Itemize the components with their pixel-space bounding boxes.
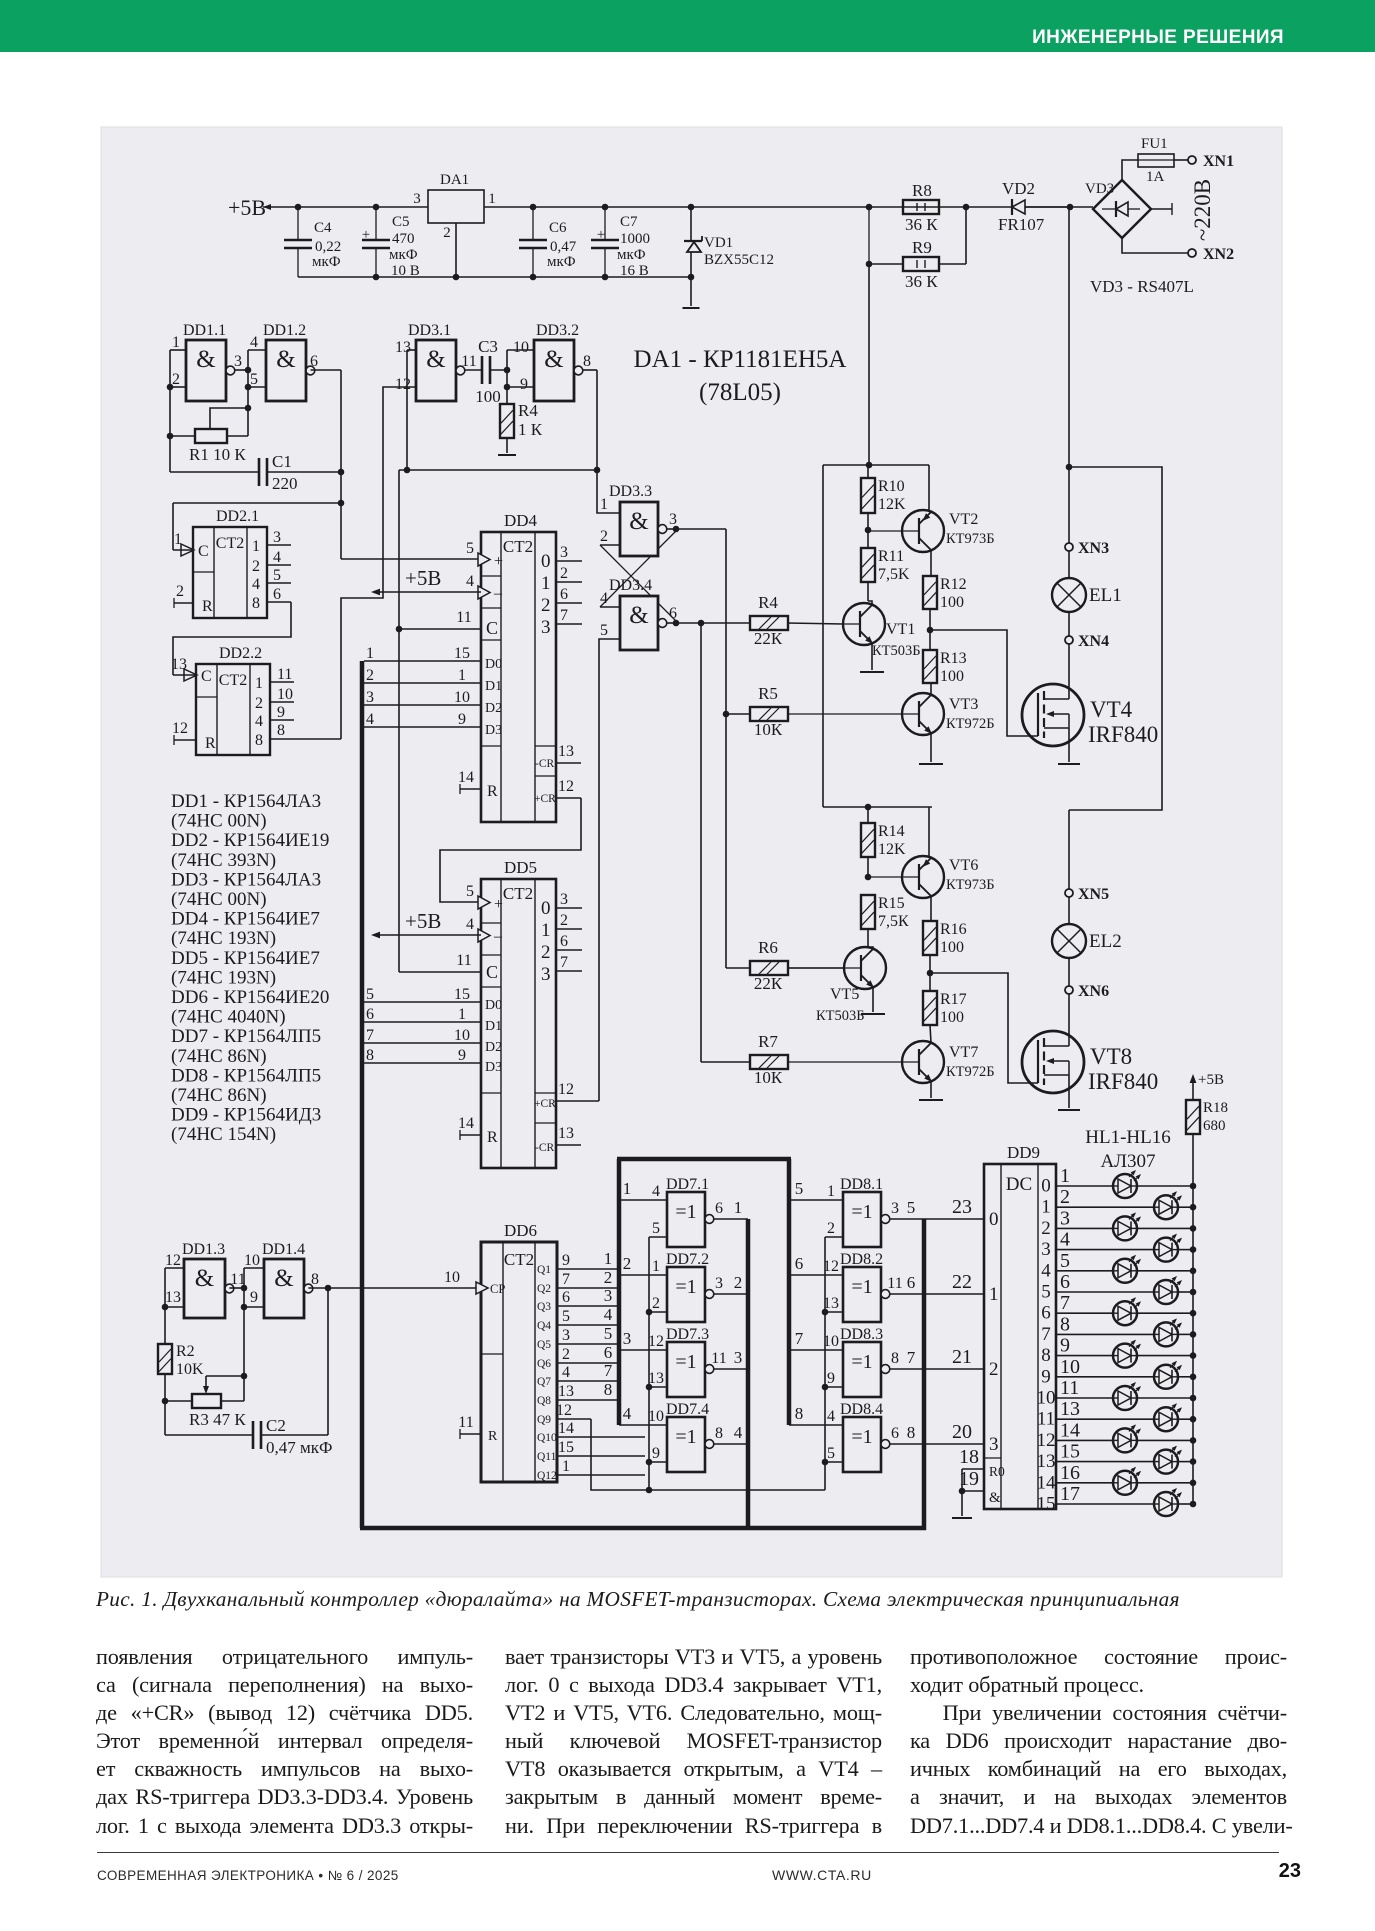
svg-text:14: 14 <box>1037 1472 1057 1493</box>
svg-text:36 К: 36 К <box>905 272 938 291</box>
resistor R9 36K <box>903 257 939 271</box>
svg-text:4: 4 <box>1041 1260 1051 1281</box>
svg-text:2: 2 <box>541 595 551 616</box>
svg-text:XN2: XN2 <box>1203 246 1234 263</box>
wire DD3.1 pin13 <box>407 349 416 351</box>
svg-text:EL2: EL2 <box>1089 931 1122 952</box>
svg-text:0,47 мкФ: 0,47 мкФ <box>266 1438 332 1457</box>
svg-text:DD4: DD4 <box>504 511 538 530</box>
bus wire bottom horizontal <box>360 1526 926 1531</box>
svg-text:2: 2 <box>176 583 184 600</box>
svg-text:3: 3 <box>1060 1207 1070 1229</box>
svg-text:1: 1 <box>1060 1165 1070 1187</box>
svg-text:C: C <box>486 618 498 638</box>
svg-text:7: 7 <box>795 1329 804 1348</box>
svg-text:15: 15 <box>454 986 470 1003</box>
svg-text:10: 10 <box>1060 1356 1080 1378</box>
svg-text:1: 1 <box>541 920 551 941</box>
svg-text:8: 8 <box>1041 1345 1051 1366</box>
svg-text:3: 3 <box>715 1275 723 1292</box>
svg-text:5: 5 <box>366 986 374 1003</box>
DD4 pin14 R input <box>459 784 461 794</box>
svg-text:КТ972Б: КТ972Б <box>946 716 995 732</box>
svg-text:13: 13 <box>395 339 411 356</box>
svg-text:C3: C3 <box>478 337 498 356</box>
svg-text:R: R <box>202 598 213 615</box>
wire +5V rail <box>263 206 428 208</box>
svg-text:7: 7 <box>1060 1292 1070 1314</box>
svg-text:XN1: XN1 <box>1203 153 1234 170</box>
gate DD1.1 <box>186 340 226 401</box>
svg-text:5: 5 <box>1060 1250 1070 1272</box>
terminal XN6 <box>1068 958 1070 986</box>
svg-text:6: 6 <box>1041 1303 1051 1324</box>
svg-text:VT2: VT2 <box>949 511 978 528</box>
svg-text:C: C <box>486 962 498 982</box>
svg-text:4: 4 <box>466 573 474 590</box>
svg-text:мкФ: мкФ <box>389 247 418 263</box>
DD5 pin4 -1 input with +5V <box>374 934 481 936</box>
svg-text:12: 12 <box>556 1402 572 1419</box>
svg-text:=1: =1 <box>851 1201 872 1223</box>
svg-text:2: 2 <box>562 1346 570 1363</box>
svg-text:36 К: 36 К <box>905 215 938 234</box>
svg-text:3: 3 <box>734 1348 743 1367</box>
svg-text:DD3.1: DD3.1 <box>408 322 451 339</box>
ground below DD9 strobe <box>952 1517 972 1519</box>
svg-text:4: 4 <box>273 549 281 566</box>
svg-text:10: 10 <box>1037 1388 1056 1409</box>
svg-text:8: 8 <box>277 722 285 739</box>
svg-text:1: 1 <box>827 1183 835 1200</box>
svg-text:+: + <box>362 227 370 243</box>
svg-text:3: 3 <box>604 1286 613 1305</box>
wire DD1.4 out to DD6 CP <box>308 1287 481 1289</box>
svg-text:5: 5 <box>466 883 474 900</box>
ground below VT3 <box>919 763 943 765</box>
DD5 pin11 C input <box>399 971 481 973</box>
svg-text:DD8.1: DD8.1 <box>840 1176 883 1193</box>
svg-text:DD1.4: DD1.4 <box>262 1241 305 1258</box>
bus wire main vertical left <box>360 661 365 1528</box>
svg-text:6: 6 <box>366 1006 374 1023</box>
wire DD3.4 out to R4. R7 <box>676 622 750 624</box>
svg-text:11: 11 <box>277 666 292 683</box>
LED HL1 <box>1056 1185 1113 1187</box>
svg-text:C7: C7 <box>620 214 638 230</box>
DD9 strobe inputs 18/19 <box>962 1468 984 1470</box>
svg-text:21: 21 <box>952 1346 972 1368</box>
svg-text:7: 7 <box>560 607 568 624</box>
LED common rail <box>1192 1134 1194 1504</box>
bus wire DD6 outputs vertical <box>617 1159 622 1425</box>
svg-text:XN6: XN6 <box>1078 983 1109 1000</box>
svg-text:DD6 - КР1564ИЕ20: DD6 - КР1564ИЕ20 <box>171 987 329 1008</box>
svg-text:6: 6 <box>669 605 677 622</box>
svg-text:R: R <box>205 735 216 752</box>
svg-text:1: 1 <box>458 667 466 684</box>
svg-text:(74НС 154N): (74НС 154N) <box>171 1124 276 1145</box>
svg-text:DD4 - КР1564ИЕ7: DD4 - КР1564ИЕ7 <box>171 909 320 930</box>
resistor R18 680 <box>1186 1100 1200 1134</box>
svg-text:9: 9 <box>562 1252 570 1269</box>
LED HL11 <box>1056 1397 1113 1399</box>
svg-text:6: 6 <box>604 1343 613 1362</box>
wire to DD4 +1 input <box>341 558 481 560</box>
ground below VT5 <box>861 1013 885 1015</box>
bridge rectifier VD3 <box>1093 180 1151 238</box>
LED HL4 <box>1056 1249 1154 1251</box>
svg-text:=1: =1 <box>851 1426 872 1448</box>
svg-text:XN3: XN3 <box>1078 540 1109 557</box>
svg-text:R11: R11 <box>878 548 904 565</box>
svg-text:6: 6 <box>273 586 281 603</box>
svg-text:2: 2 <box>1041 1218 1051 1239</box>
svg-text:1: 1 <box>488 191 496 207</box>
wire DD1.1 inputs <box>170 349 186 351</box>
svg-text:4: 4 <box>623 1404 632 1423</box>
svg-text:20: 20 <box>952 1421 972 1443</box>
gate DD7.2 <box>667 1267 705 1322</box>
svg-text:BZX55C12: BZX55C12 <box>704 252 774 268</box>
svg-text:5: 5 <box>907 1198 916 1217</box>
svg-text:12: 12 <box>558 1081 574 1098</box>
svg-text:11: 11 <box>887 1275 902 1292</box>
gate DD7.3 <box>667 1342 705 1397</box>
svg-text:7,5K: 7,5K <box>878 566 910 583</box>
svg-text:Q2: Q2 <box>537 1283 551 1295</box>
svg-text:2: 2 <box>734 1273 743 1292</box>
svg-text:9: 9 <box>458 1047 466 1064</box>
svg-text:=1: =1 <box>851 1276 872 1298</box>
svg-text:R15: R15 <box>878 895 905 912</box>
DD5 output stubs <box>556 907 582 909</box>
svg-text:1: 1 <box>989 1284 999 1305</box>
LED HL13 <box>1056 1439 1113 1441</box>
DD5 pin14 R input <box>459 1130 461 1140</box>
svg-text:13: 13 <box>165 1289 181 1306</box>
svg-text:R: R <box>487 1129 498 1146</box>
lamp EL2 <box>1068 897 1070 924</box>
svg-text:12: 12 <box>648 1333 664 1350</box>
svg-text:Q5: Q5 <box>537 1339 551 1351</box>
DD2.1 pin1 clock <box>173 549 193 551</box>
svg-text:+5В: +5В <box>1198 1072 1224 1088</box>
svg-text:100: 100 <box>940 939 964 956</box>
ground below VT1 <box>860 671 884 673</box>
svg-text:+: + <box>494 896 503 913</box>
svg-text:(74НС 86N): (74НС 86N) <box>171 1046 267 1067</box>
gate DD3.1 <box>416 340 456 401</box>
LED HL2 <box>1056 1206 1154 1208</box>
svg-text:EL1: EL1 <box>1089 585 1122 606</box>
wire DD3.3 out to R5/R6 <box>676 528 726 530</box>
svg-text:5: 5 <box>827 1445 835 1462</box>
svg-text:DD3.2: DD3.2 <box>536 322 579 339</box>
svg-text:D0: D0 <box>485 657 502 672</box>
DD6 Q9 wire to XOR second inputs <box>557 1418 591 1420</box>
svg-text:1: 1 <box>734 1198 743 1217</box>
svg-text:3: 3 <box>1041 1239 1051 1260</box>
svg-text:1: 1 <box>174 531 182 548</box>
svg-text:=1: =1 <box>675 1426 696 1448</box>
svg-text:9: 9 <box>827 1370 835 1387</box>
svg-text:DA1 - КР1181ЕН5А: DA1 - КР1181ЕН5А <box>634 346 847 373</box>
svg-text:1: 1 <box>1041 1197 1051 1218</box>
capacitor C6 <box>532 207 534 240</box>
svg-text:470: 470 <box>392 231 415 247</box>
svg-text:4: 4 <box>255 713 263 730</box>
svg-text:R2: R2 <box>176 1343 195 1360</box>
LED HL5 <box>1056 1270 1113 1272</box>
DD2.2 pin13 clock <box>173 674 196 676</box>
svg-text:13: 13 <box>1037 1451 1056 1472</box>
svg-text:&: & <box>629 508 648 535</box>
wire bypass to channel 2 lamps <box>1069 467 1162 810</box>
wire DA1 pin2 to ground rail <box>455 223 457 277</box>
svg-text:3: 3 <box>234 353 242 370</box>
svg-text:DD2 - КР1564ИЕ19: DD2 - КР1564ИЕ19 <box>171 830 329 851</box>
svg-text:R8: R8 <box>912 181 932 200</box>
svg-text:8: 8 <box>907 1423 916 1442</box>
terminal XN3 <box>1065 543 1073 551</box>
DD4 pin11 C input <box>399 628 481 630</box>
svg-text:DD1 - КР1564ЛА3: DD1 - КР1564ЛА3 <box>171 791 321 812</box>
svg-text:6: 6 <box>891 1425 899 1442</box>
svg-text:R: R <box>487 783 498 800</box>
svg-text:2: 2 <box>989 1359 999 1380</box>
svg-text:DD1.1: DD1.1 <box>183 322 226 339</box>
svg-text:Q10: Q10 <box>537 1432 557 1444</box>
svg-text:2: 2 <box>252 558 260 575</box>
svg-text:12K: 12K <box>878 841 906 858</box>
gate DD3.3 <box>620 502 658 556</box>
svg-text:(74НС 393N): (74НС 393N) <box>171 850 276 871</box>
svg-text:СТ2: СТ2 <box>503 537 533 556</box>
svg-text:Q11: Q11 <box>537 1451 557 1463</box>
terminal XN4 <box>1068 612 1070 636</box>
svg-text:9: 9 <box>458 711 466 728</box>
svg-text:3: 3 <box>623 1329 632 1348</box>
svg-text:(74НС 00N): (74НС 00N) <box>171 811 267 832</box>
wire RS cross coupling <box>662 528 676 530</box>
svg-text:мкФ: мкФ <box>547 254 576 270</box>
svg-text:+5В: +5В <box>405 909 441 933</box>
svg-text:13: 13 <box>171 656 187 673</box>
svg-text:=1: =1 <box>851 1351 872 1373</box>
svg-text:R5: R5 <box>758 684 778 703</box>
svg-text:8: 8 <box>1060 1313 1070 1335</box>
svg-text:–: – <box>493 585 503 602</box>
svg-text:11: 11 <box>461 353 476 370</box>
wire DD1.3 out to DD1.4 <box>229 1287 244 1289</box>
svg-text:–: – <box>493 928 503 945</box>
gate DD1.2 <box>266 340 306 401</box>
svg-text:6: 6 <box>562 1289 570 1306</box>
svg-text:2: 2 <box>255 695 263 712</box>
svg-text:14: 14 <box>458 769 474 786</box>
gate DD8.1 <box>843 1192 881 1247</box>
svg-text:23: 23 <box>952 1196 972 1218</box>
gate DD3.2 <box>534 340 574 401</box>
svg-text:6: 6 <box>715 1200 723 1217</box>
ground below VD1 <box>683 307 700 309</box>
LED HL16 <box>1056 1503 1154 1505</box>
svg-text:0,47: 0,47 <box>550 239 577 255</box>
svg-text:2: 2 <box>1060 1186 1070 1208</box>
gate DD7.1 <box>667 1192 705 1247</box>
ground below R4 <box>506 438 508 453</box>
capacitor C5 <box>375 207 377 240</box>
wire to DD2.1 clock <box>173 502 341 504</box>
svg-text:1: 1 <box>562 1458 570 1475</box>
svg-text:=1: =1 <box>675 1276 696 1298</box>
MOSFET VT4 IRF840 <box>1068 644 1070 699</box>
svg-text:2: 2 <box>827 1220 835 1237</box>
terminal XN1 <box>1174 159 1188 161</box>
svg-text:КТ973Б: КТ973Б <box>946 877 995 893</box>
node C3 right <box>490 369 507 371</box>
svg-text:D2: D2 <box>485 1040 502 1055</box>
svg-text:2: 2 <box>560 565 568 582</box>
svg-text:&: & <box>274 1265 293 1292</box>
resistor R2 10K <box>158 1344 172 1374</box>
svg-text:C6: C6 <box>549 220 567 236</box>
svg-text:1: 1 <box>604 1249 613 1268</box>
svg-text:(74НС 193N): (74НС 193N) <box>171 967 276 988</box>
svg-text:DD3.4: DD3.4 <box>609 577 652 594</box>
svg-text:=1: =1 <box>675 1201 696 1223</box>
svg-text:1: 1 <box>541 573 551 594</box>
svg-text:XN5: XN5 <box>1078 886 1109 903</box>
svg-text:R4: R4 <box>758 593 778 612</box>
DD4 data input rows <box>364 660 481 662</box>
svg-text:5: 5 <box>1041 1282 1051 1303</box>
svg-text:12K: 12K <box>878 496 906 513</box>
resistor R15 7.5K <box>861 895 875 929</box>
svg-text:3: 3 <box>891 1200 899 1217</box>
svg-text:СТ2: СТ2 <box>219 672 247 689</box>
fuse FU1 1A <box>1138 154 1174 167</box>
svg-text:СТ2: СТ2 <box>503 884 533 903</box>
svg-text:6: 6 <box>795 1254 804 1273</box>
wire C3 node to DD3.2 inputs <box>507 349 534 351</box>
svg-text:7: 7 <box>1041 1324 1051 1345</box>
capacitor C7 <box>604 207 606 240</box>
resistor R16 100 <box>923 921 937 955</box>
gate DD8.2 <box>843 1267 881 1322</box>
svg-text:5: 5 <box>466 540 474 557</box>
svg-text:8: 8 <box>366 1047 374 1064</box>
svg-text:&: & <box>276 346 295 373</box>
transistor VT6 KT973B <box>902 856 944 898</box>
svg-text:7,5К: 7,5К <box>878 913 909 930</box>
svg-text:8: 8 <box>311 1271 319 1288</box>
svg-text:9: 9 <box>250 1289 258 1306</box>
node R12/R13 to VT4 gate <box>927 627 934 634</box>
svg-text:3: 3 <box>562 1327 570 1344</box>
svg-text:16 В: 16 В <box>620 263 649 279</box>
DD5 +CR wire up to DD3.4 <box>556 1100 599 1102</box>
svg-text:7: 7 <box>604 1361 613 1380</box>
DD5 -CR stub <box>556 1144 581 1146</box>
svg-text:0: 0 <box>1041 1176 1051 1197</box>
gate DD8.4 <box>843 1417 881 1472</box>
svg-text:R18: R18 <box>1203 1100 1228 1116</box>
svg-text:4: 4 <box>652 1183 660 1200</box>
svg-text:1: 1 <box>366 645 374 662</box>
svg-text:Q9: Q9 <box>537 1414 551 1426</box>
svg-text:100: 100 <box>940 594 964 611</box>
svg-text:R: R <box>488 1429 498 1444</box>
svg-text:2: 2 <box>560 912 568 929</box>
gate DD1.3 <box>184 1259 225 1318</box>
svg-text:0,22: 0,22 <box>315 239 341 255</box>
svg-text:12: 12 <box>1037 1430 1056 1451</box>
svg-text:11: 11 <box>458 1414 473 1431</box>
svg-text:VT7: VT7 <box>949 1044 978 1061</box>
svg-text:+: + <box>494 553 503 570</box>
svg-text:8: 8 <box>795 1404 804 1423</box>
DD6 Q10-Q12 stubs <box>557 1436 645 1438</box>
resistor R4 1K <box>500 404 514 438</box>
svg-text:10: 10 <box>454 1027 470 1044</box>
svg-text:9: 9 <box>1060 1335 1070 1357</box>
svg-text:DD6: DD6 <box>504 1221 537 1240</box>
node R16/R17 to VT8 gate <box>927 970 934 977</box>
svg-text:2: 2 <box>443 225 451 241</box>
svg-text:D0: D0 <box>485 998 502 1013</box>
svg-text:15: 15 <box>1037 1494 1056 1515</box>
svg-text:D1: D1 <box>485 1019 502 1034</box>
svg-text:СТ2: СТ2 <box>216 535 244 552</box>
svg-text:4: 4 <box>827 1408 835 1425</box>
wire R8/R9 right junction <box>939 263 966 265</box>
bus wire to DD8 inputs vertical <box>787 1159 792 1425</box>
svg-text:C5: C5 <box>392 214 410 230</box>
transistor VT5 KT503B <box>844 947 886 989</box>
DD4 output stubs <box>556 560 582 562</box>
ground below VT8 <box>1058 1109 1080 1111</box>
svg-text:4: 4 <box>466 916 474 933</box>
svg-text:11: 11 <box>1060 1377 1079 1399</box>
svg-text:DD2.2: DD2.2 <box>219 645 262 662</box>
wire DD1.3 inputs <box>165 1267 184 1269</box>
svg-text:C: C <box>198 543 209 560</box>
diode VD2 FR107 <box>1012 200 1025 214</box>
svg-text:9: 9 <box>520 376 528 393</box>
wire DD8 second-input chain <box>824 1237 826 1490</box>
svg-text:DC: DC <box>1006 1174 1032 1195</box>
gate DD7.4 <box>667 1417 705 1472</box>
MOSFET VT8 IRF840 <box>1068 994 1070 1046</box>
capacitor C3 100 <box>465 369 482 371</box>
gate DD8.3 <box>843 1342 881 1397</box>
svg-text:100: 100 <box>940 668 964 685</box>
svg-text:8: 8 <box>255 732 263 749</box>
svg-text:Q6: Q6 <box>537 1358 551 1370</box>
svg-text:&: & <box>629 602 648 629</box>
svg-text:DD9: DD9 <box>1007 1143 1040 1162</box>
wire clock line down to DD4/DD5 <box>398 470 400 972</box>
svg-text:11: 11 <box>1037 1409 1055 1430</box>
svg-text:3: 3 <box>413 191 421 207</box>
svg-text:КТ972Б: КТ972Б <box>946 1064 995 1080</box>
wire DD7 second-input chain <box>648 1237 650 1490</box>
svg-text:VT3: VT3 <box>949 696 978 713</box>
svg-text:C2: C2 <box>266 1416 286 1435</box>
wire feed rail to channel drivers <box>868 264 870 465</box>
